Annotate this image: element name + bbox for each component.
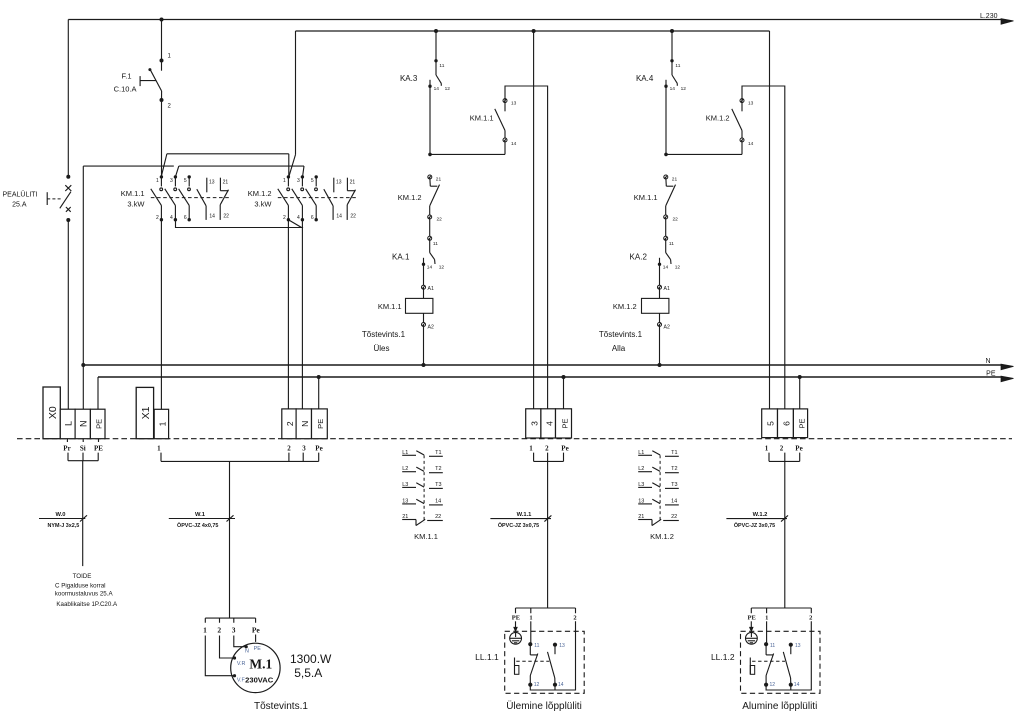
wire L.230 top bus — [68, 19, 1001, 21]
svg-text:ÖPVC-JZ 3x0,75: ÖPVC-JZ 3x0,75 — [734, 522, 775, 529]
svg-text:13: 13 — [638, 498, 644, 504]
svg-text:14: 14 — [670, 86, 676, 92]
svg-text:Alumine lõpplüliti: Alumine lõpplüliti — [742, 701, 817, 712]
svg-text:T2: T2 — [671, 466, 677, 472]
terminal X1:5 — [762, 409, 778, 438]
motor M.1 circle — [231, 643, 280, 692]
svg-text:PEALÜLITI: PEALÜLITI — [2, 191, 37, 199]
limit switch LL.1.2 wire 1 — [766, 621, 768, 644]
terminal X1:N — [296, 409, 311, 439]
svg-text:KA.3: KA.3 — [400, 74, 418, 83]
limit switch LL.1.1 wire 1 — [530, 621, 532, 644]
svg-text:13: 13 — [559, 643, 565, 649]
PE bus arrow — [1001, 376, 1014, 382]
relay contact KA.4 — [670, 29, 674, 33]
wire KM.1.1 A2 to N bus — [423, 325, 425, 366]
svg-text:KM.1.1: KM.1.1 — [414, 532, 438, 541]
terminal block X0 — [43, 387, 60, 439]
limit switch LL.1.2 earth connection — [750, 621, 752, 627]
terminal X0:L — [60, 409, 75, 439]
contact KM.1.2 21-22 (interlock) — [428, 175, 432, 179]
cable W.0 core labels — [66, 439, 68, 442]
svg-text:T3: T3 — [671, 482, 677, 488]
terminal X1:PE (mid) — [556, 409, 572, 438]
cable W.1.2 bundle — [769, 453, 800, 462]
svg-text:L2: L2 — [638, 466, 644, 472]
svg-text:11: 11 — [433, 241, 438, 247]
svg-text:13: 13 — [336, 180, 342, 186]
svg-text:KM.1.1: KM.1.1 — [470, 114, 494, 123]
svg-text:W.1.1: W.1.1 — [517, 512, 533, 518]
svg-text:4: 4 — [170, 215, 173, 221]
relay contact KA.2 — [664, 236, 668, 240]
wire KM.1.1 14 to junction — [504, 140, 506, 154]
contact stack KM.1.1 linkage — [423, 455, 425, 522]
contactor KM.1.2 aux contact 13-14 — [333, 178, 335, 193]
svg-text:6: 6 — [184, 215, 187, 221]
svg-text:3: 3 — [297, 178, 300, 184]
wire PE bus — [98, 376, 1001, 378]
wire KM.1.2:2 to X1:2 — [287, 220, 289, 409]
svg-text:Tõstevints.1: Tõstevints.1 — [254, 701, 308, 712]
svg-text:ÖPVC-JZ 4x0,75: ÖPVC-JZ 4x0,75 — [177, 522, 218, 529]
svg-text:1: 1 — [765, 445, 769, 453]
svg-text:14: 14 — [336, 214, 342, 220]
node PE bus tap to X1:PE — [317, 375, 321, 379]
wire PE bus to X0:PE — [97, 377, 99, 409]
svg-text:12: 12 — [534, 682, 540, 688]
svg-text:22: 22 — [671, 514, 677, 520]
wire L.230 to main switch — [67, 20, 69, 177]
limit switch LL.1.1 contact 11-12 — [528, 642, 532, 646]
wire to motor N — [234, 636, 245, 647]
contact stack KM.1.1 NC row — [402, 519, 416, 521]
svg-text:13: 13 — [748, 101, 754, 107]
limit switch LL.1.1 actuator — [514, 658, 516, 675]
svg-text:N: N — [985, 358, 990, 365]
svg-text:KM.1.2: KM.1.2 — [706, 114, 730, 123]
svg-text:F.1: F.1 — [121, 72, 131, 81]
wire KM.1.1 13 to X1 riser — [505, 86, 548, 409]
svg-text:14: 14 — [794, 682, 800, 688]
wire N bus — [83, 364, 1001, 366]
wire KM.1.2 A2 to N bus — [659, 325, 661, 366]
svg-text:C.10.A: C.10.A — [114, 85, 137, 94]
svg-text:14: 14 — [671, 498, 677, 504]
svg-text:Pr: Pr — [63, 445, 70, 453]
main switch PEALULITI 25A — [66, 175, 70, 179]
svg-text:LL.1.1: LL.1.1 — [475, 652, 499, 662]
svg-text:Ülemine lõpplüliti: Ülemine lõpplüliti — [506, 700, 582, 712]
svg-text:2: 2 — [283, 215, 286, 221]
svg-text:14: 14 — [435, 498, 441, 504]
svg-text:PE: PE — [512, 615, 520, 622]
wire to motor V.R — [220, 636, 234, 659]
contact stack KM.1.1 — [402, 454, 416, 456]
contactor KM.1.1 3.kW main contacts — [160, 175, 163, 178]
svg-text:5: 5 — [184, 178, 187, 184]
svg-text:11: 11 — [675, 63, 680, 69]
wire to motor V.F — [205, 636, 233, 676]
contact stack KM.1.2 — [638, 454, 652, 456]
svg-text:koormustaluvus 25.A: koormustaluvus 25.A — [55, 590, 114, 597]
main switch actuator link — [46, 192, 48, 205]
svg-text:KM.1.1: KM.1.1 — [378, 302, 402, 311]
limit switch LL.1.2 cable bracket — [751, 607, 811, 609]
svg-text:KA.2: KA.2 — [630, 253, 648, 262]
svg-text:L: L — [64, 421, 74, 426]
limit switch LL.1.2 enclosure — [741, 631, 821, 693]
svg-text:KA.4: KA.4 — [636, 74, 654, 83]
svg-text:3.kW: 3.kW — [127, 200, 145, 209]
svg-text:A1: A1 — [664, 286, 670, 292]
svg-text:KM.1.1: KM.1.1 — [121, 189, 145, 198]
auxiliary contact KM.1.1 13-14 (holding) — [503, 99, 507, 103]
svg-text:14: 14 — [511, 141, 517, 147]
cable W.1 marker — [169, 518, 235, 520]
contactor KM.1.2 linkage — [278, 197, 356, 199]
svg-text:14: 14 — [748, 141, 754, 147]
svg-text:T3: T3 — [435, 482, 441, 488]
node PE bus tap to X1:PE right — [798, 375, 802, 379]
wire C: KM.1.1:4 to KM.1.2:2 — [176, 220, 302, 228]
auxiliary contact KM.1.2 13-14 (holding) — [740, 99, 744, 103]
limit switch LL.1.1 cable bracket — [516, 607, 576, 609]
svg-text:KM.1.2: KM.1.2 — [650, 532, 674, 541]
svg-text:14: 14 — [558, 682, 564, 688]
svg-text:PE: PE — [95, 419, 104, 429]
terminal X1:PE (right) — [793, 409, 807, 438]
svg-text:W.1: W.1 — [195, 512, 206, 518]
svg-text:6: 6 — [782, 421, 792, 426]
svg-text:13: 13 — [511, 101, 517, 107]
wire KM.1.2 13 to X1 riser — [742, 86, 785, 409]
svg-text:14: 14 — [209, 214, 215, 220]
svg-text:Pe: Pe — [561, 445, 568, 453]
svg-text:3: 3 — [232, 626, 236, 635]
terminal X1:6 — [778, 409, 794, 438]
svg-text:2: 2 — [287, 445, 291, 453]
limit switch LL.1.1 earth connection — [515, 621, 517, 627]
svg-text:11: 11 — [770, 643, 775, 649]
wire control bus — [296, 30, 770, 32]
svg-text:14: 14 — [427, 264, 433, 270]
svg-text:A2: A2 — [664, 325, 670, 331]
wire X0:N riser — [82, 166, 84, 409]
svg-text:11: 11 — [439, 63, 444, 69]
svg-text:W.0: W.0 — [56, 512, 66, 518]
terminal X1:1 — [154, 409, 168, 438]
svg-text:Pe: Pe — [315, 445, 322, 453]
coil KM.1.1 — [423, 264, 425, 287]
svg-text:LL.1.2: LL.1.2 — [711, 652, 735, 662]
svg-text:PE: PE — [748, 615, 756, 622]
svg-text:X1: X1 — [140, 406, 152, 419]
svg-text:21: 21 — [436, 177, 442, 183]
coil KM.1.2 — [659, 264, 661, 287]
limit switch LL.1.2 linkage — [752, 660, 785, 662]
terminal X1:PE (left) — [312, 409, 328, 439]
limit switch LL.1.1 wire 2 and bottom link — [530, 621, 575, 690]
wire F.1 to KM.1.1 terminal 1 — [161, 100, 163, 177]
svg-text:KM.1.2: KM.1.2 — [398, 193, 422, 202]
wire control bus to X1:5 — [769, 31, 771, 409]
cable W.1.2 marker — [726, 518, 787, 520]
svg-text:PE: PE — [94, 445, 103, 453]
svg-text:L1: L1 — [638, 450, 644, 456]
svg-text:21: 21 — [402, 514, 408, 520]
terminal X1:3 — [526, 409, 541, 438]
svg-text:N: N — [79, 421, 89, 428]
terminal X0:N — [75, 409, 90, 439]
svg-text:12: 12 — [439, 264, 445, 270]
svg-text:X0: X0 — [47, 406, 59, 419]
svg-text:3: 3 — [302, 445, 306, 453]
contactor KM.1.1 aux contact 21-22 — [219, 178, 221, 191]
svg-text:L1: L1 — [402, 450, 408, 456]
svg-text:A1: A1 — [428, 286, 434, 292]
svg-text:4: 4 — [297, 215, 300, 221]
svg-text:3: 3 — [530, 421, 540, 426]
limit switch LL.1.2 contact 11-12 — [764, 642, 768, 646]
cable W.1 bundle — [161, 453, 319, 462]
svg-text:L3: L3 — [402, 482, 408, 488]
svg-text:V.F: V.F — [237, 678, 246, 684]
svg-text:PE: PE — [986, 370, 996, 377]
limit switch LL.1.2 wire 2 and bottom link — [766, 621, 811, 690]
svg-text:22: 22 — [437, 217, 443, 223]
relay contact KA.1 — [428, 236, 432, 240]
svg-text:12: 12 — [675, 264, 681, 270]
svg-text:KM.1.1: KM.1.1 — [634, 193, 658, 202]
svg-text:1: 1 — [765, 615, 768, 622]
svg-text:22: 22 — [435, 514, 441, 520]
limit switch LL.1.2 actuator — [749, 658, 751, 675]
svg-text:230VAC: 230VAC — [245, 675, 274, 684]
svg-text:13: 13 — [795, 643, 801, 649]
svg-text:T2: T2 — [435, 466, 441, 472]
svg-text:14: 14 — [434, 86, 440, 92]
terminal X1:4 — [541, 409, 556, 438]
L.230 arrow — [1001, 19, 1014, 25]
svg-text:5: 5 — [311, 178, 314, 184]
wire control bus to X1:3 — [532, 29, 536, 33]
svg-text:ÖPVC-JZ 3x0,75: ÖPVC-JZ 3x0,75 — [498, 522, 539, 529]
svg-text:T1: T1 — [671, 450, 677, 456]
svg-text:2: 2 — [545, 445, 549, 453]
svg-text:1: 1 — [283, 178, 286, 184]
contact stack KM.1.2 NC row — [638, 519, 652, 521]
wire KM.1.2 to KA.1 — [429, 217, 431, 238]
contact stack KM.1.2 linkage — [659, 455, 661, 522]
svg-text:2: 2 — [217, 626, 221, 635]
limit switch LL.1.1 linkage — [516, 660, 549, 662]
terminal block X1 — [136, 387, 153, 438]
svg-text:T1: T1 — [435, 450, 441, 456]
svg-text:12: 12 — [681, 86, 687, 92]
svg-text:21: 21 — [223, 180, 229, 186]
svg-text:KA.1: KA.1 — [392, 253, 410, 262]
svg-text:1: 1 — [529, 615, 532, 622]
svg-text:Üles: Üles — [373, 344, 389, 353]
contact KM.1.1 21-22 (interlock) — [664, 175, 668, 179]
wire KM.1.2 14 to junction — [741, 140, 743, 154]
svg-text:1300.W: 1300.W — [290, 652, 332, 666]
svg-text:22: 22 — [223, 214, 229, 220]
cable W.1.1 bundle — [534, 453, 564, 462]
svg-text:2: 2 — [156, 215, 159, 221]
svg-text:2: 2 — [285, 421, 295, 426]
svg-text:PE: PE — [316, 419, 325, 429]
svg-text:22: 22 — [350, 214, 356, 220]
svg-text:C Pigalduse korral: C Pigalduse korral — [55, 583, 106, 590]
svg-text:5: 5 — [766, 421, 776, 426]
terminal X0:PE — [90, 409, 105, 439]
wire KA.4 to junction — [665, 86, 667, 154]
svg-text:12: 12 — [770, 682, 776, 688]
motor M.1 supply bracket — [205, 617, 255, 619]
svg-text:Tõstevints.1: Tõstevints.1 — [362, 330, 406, 339]
wire main switch to X0:L — [67, 220, 69, 409]
N bus arrow — [1001, 364, 1014, 370]
svg-text:M.1: M.1 — [249, 656, 272, 671]
contactor KM.1.1 linkage — [151, 197, 229, 199]
svg-text:12: 12 — [445, 86, 451, 92]
contactor KM.1.2 aux contact 21-22 — [346, 178, 348, 191]
wire L bus to F.1 — [161, 20, 163, 61]
svg-text:13: 13 — [402, 498, 408, 504]
svg-text:4: 4 — [545, 421, 555, 426]
cable W.0 marker — [39, 518, 85, 520]
wire junction KA.3 / KM.1.1 aux — [430, 153, 505, 155]
svg-text:PE: PE — [254, 646, 262, 652]
enclosure boundary dashed line — [17, 438, 1012, 440]
limit switch LL.1.2 contact 13-14 — [789, 643, 793, 647]
svg-text:1: 1 — [158, 421, 168, 426]
svg-text:N: N — [245, 648, 249, 654]
svg-text:1: 1 — [203, 626, 207, 635]
svg-text:KM.1.2: KM.1.2 — [613, 302, 637, 311]
svg-text:N: N — [300, 421, 310, 427]
contactor KM.1.1 aux contact 13-14 — [206, 178, 208, 193]
svg-text:25.A: 25.A — [12, 202, 27, 209]
svg-text:1: 1 — [529, 445, 533, 453]
svg-text:21: 21 — [672, 177, 678, 183]
wire KA.3 to junction — [429, 86, 431, 154]
svg-text:1: 1 — [157, 445, 161, 453]
svg-text:Pe: Pe — [795, 445, 802, 453]
node N bus tap to X0:N — [81, 363, 85, 367]
svg-text:3: 3 — [170, 178, 173, 184]
svg-text:22: 22 — [673, 217, 679, 223]
wire B: X0:N to contactor poles 3 — [83, 165, 174, 167]
svg-text:Tõstevints.1: Tõstevints.1 — [599, 330, 643, 339]
svg-text:L.230: L.230 — [980, 13, 998, 20]
svg-text:L2: L2 — [402, 466, 408, 472]
svg-text:2: 2 — [780, 445, 784, 453]
svg-text:21: 21 — [638, 514, 644, 520]
svg-text:11: 11 — [669, 241, 674, 247]
cable W.1.1 marker — [490, 518, 551, 520]
svg-text:W.1.2: W.1.2 — [753, 512, 768, 518]
svg-text:5,5.A: 5,5.A — [294, 666, 322, 680]
svg-text:L3: L3 — [638, 482, 644, 488]
svg-text:PE: PE — [561, 418, 570, 428]
svg-text:2: 2 — [809, 615, 812, 622]
svg-text:TOIDE: TOIDE — [73, 573, 92, 580]
relay contact KA.3 — [434, 29, 438, 33]
terminal X1:2 — [282, 409, 296, 439]
svg-text:1: 1 — [156, 178, 159, 184]
node junction L bus / F.1 — [160, 18, 164, 22]
limit switch LL.1.1 enclosure — [505, 631, 585, 693]
svg-text:A2: A2 — [428, 325, 434, 331]
svg-text:Pe: Pe — [252, 626, 261, 635]
limit switch LL.1.1 contact 13-14 — [553, 643, 557, 647]
svg-text:11: 11 — [534, 643, 539, 649]
breaker F.1 C.10A — [160, 59, 164, 63]
wire A: KM.1.1:1 to KM.1.2:1 — [167, 153, 289, 155]
svg-text:NYM-J 3x2,5: NYM-J 3x2,5 — [48, 523, 80, 529]
svg-text:3.kW: 3.kW — [254, 200, 272, 209]
wire KM.1.2:4 to X1:N — [301, 220, 303, 409]
wire KM.1.1:2 to X1:1 — [160, 220, 162, 410]
contactor KM.1.2 3.kW main contacts — [287, 175, 290, 178]
svg-text:PE: PE — [798, 418, 807, 428]
wire to motor PE — [255, 635, 257, 642]
svg-text:Kaablikaitse 1P.C20.A: Kaablikaitse 1P.C20.A — [56, 601, 118, 608]
svg-text:21: 21 — [350, 180, 356, 186]
wire control bus drop to KM.1.2:1 — [295, 31, 297, 155]
svg-text:2: 2 — [573, 615, 576, 622]
svg-text:Alla: Alla — [612, 344, 626, 353]
svg-text:6: 6 — [311, 215, 314, 221]
svg-text:KM.1.2: KM.1.2 — [248, 189, 272, 198]
node PE bus tap to X1:PE mid — [562, 375, 566, 379]
svg-text:14: 14 — [663, 264, 669, 270]
wire junction KA.4 / KM.1.2 aux — [666, 153, 742, 155]
svg-text:13: 13 — [209, 180, 215, 186]
wire KM.1.1 to KA.2 — [665, 217, 667, 238]
cable W.0 bundle — [68, 453, 98, 461]
svg-text:V.R: V.R — [237, 661, 246, 667]
svg-text:Si: Si — [80, 445, 86, 453]
